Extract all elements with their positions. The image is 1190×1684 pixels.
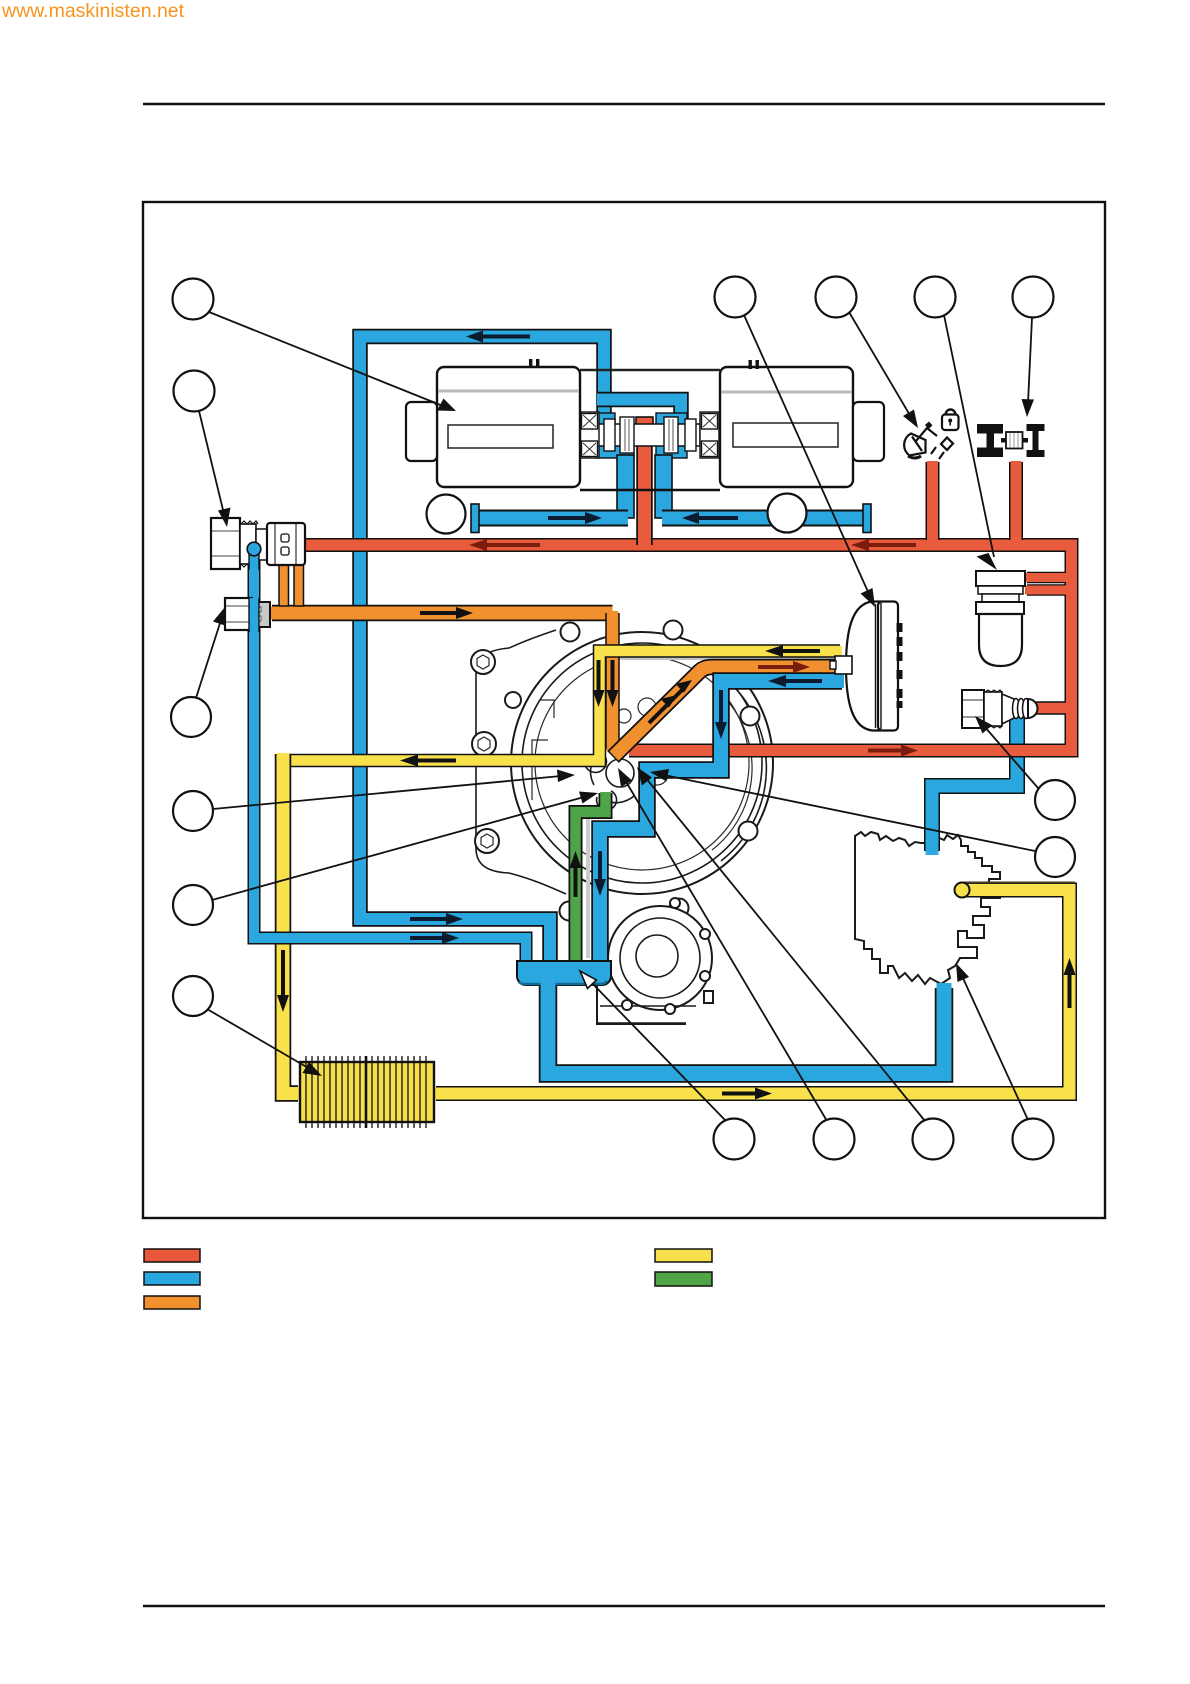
flow arrow: right suction stub (left) — [682, 512, 738, 524]
wire: blue converter return to sump — [600, 681, 842, 961]
hub gear cluster — [606, 759, 634, 787]
bell housing inner rings — [522, 643, 762, 883]
flow arrow: yellow hub lower (left) — [400, 755, 456, 767]
safety valve — [962, 690, 1038, 728]
blue pump suction stubs with end caps — [476, 510, 628, 527]
leader: c1 to pump — [209, 312, 443, 406]
housing top-left inner step — [540, 700, 554, 718]
lock-up icon (bucket + padlock) — [904, 428, 953, 459]
top rule — [143, 103, 1105, 106]
flow arrow: yellow from converter (left) — [765, 645, 820, 657]
wire: green suction pipe — [576, 793, 606, 961]
right bell (converter housing) arcs — [721, 680, 766, 861]
wire: red stub to driveshaft icon — [1009, 462, 1023, 540]
wire: blue coupling drain (small) — [254, 552, 526, 961]
leader: c8 to lock-up icon — [849, 312, 911, 417]
engine yellow port — [955, 883, 970, 898]
wire: red main pressure line top + right riser + hub return — [306, 545, 1072, 751]
flow arrows: orange diagonal (up-right) x2 — [649, 695, 677, 723]
bottom rule — [143, 1605, 1105, 1608]
leader: c9 to filter — [944, 315, 994, 557]
gear housing (lower) — [597, 985, 686, 1024]
left test coupling (converter-in tap) — [211, 518, 305, 569]
blue drain tap dot on upper coupling — [249, 550, 259, 570]
leader: c2 to coupling1 — [199, 411, 224, 514]
flow arrow: orange to converter (right) — [758, 661, 810, 673]
leader: c10 to driveshaft icon — [1028, 318, 1032, 403]
flow arrow: yellow left vertical (down) — [277, 950, 289, 1012]
flow arrow: orange hub vertical (down) — [607, 660, 619, 707]
leader: c16 to engine — [962, 976, 1028, 1120]
leader: c6 to cooler — [207, 1009, 310, 1069]
leader: c11 to safety valve — [984, 726, 1038, 788]
transmission bell housing left flange — [476, 630, 566, 894]
wire: red valve stub — [1036, 701, 1066, 715]
flow arrow: orange converter-out (right) — [420, 607, 473, 619]
bearing blocks — [580, 412, 719, 458]
torque converter — [846, 602, 880, 731]
flow arrow: green suction (up) — [570, 851, 582, 897]
wire: yellow converter line, hub drop and run to cooler — [288, 651, 840, 761]
sump tub — [517, 961, 611, 985]
flow arrow: yellow hub vertical (down) — [593, 660, 605, 707]
leader: c12 to hub far — [664, 775, 1035, 851]
lower coupling (converter-out tap) — [225, 598, 270, 630]
left pump body — [437, 367, 580, 487]
flow arrow: yellow right riser (up) — [1064, 958, 1076, 1008]
flow arrow: red hub return (right) — [868, 745, 918, 757]
driveshaft icon — [977, 424, 1045, 457]
svg-text:www.maskinisten.net: www.maskinisten.net — [1, 0, 185, 22]
wire: blue left loop (top horizontal, left vertical, lower horizontal h1) — [360, 337, 604, 962]
engine block outline — [855, 832, 1000, 984]
flow arrow: blue converter drop (down) — [715, 690, 727, 739]
right pump body — [720, 367, 853, 487]
blue drain passes over lower coupling — [249, 598, 259, 632]
pump drive shaft and couplings (over orange) — [598, 424, 700, 446]
callout circles — [171, 277, 1075, 1160]
wire: yellow cooler out, right riser, to engine port — [436, 890, 1070, 1094]
flow arrow: blue top horizontal (left) — [466, 331, 530, 343]
diagram frame — [143, 202, 1105, 1218]
flow arrow: yellow bottom (right) — [722, 1088, 772, 1100]
wire: red filter stubs — [1027, 572, 1066, 584]
flow arrows: blue returns to sump (right) x2 — [410, 913, 463, 925]
wire: orange hub-to-converter diagonal — [613, 667, 838, 757]
flow arrow: red main (left, near pump) — [469, 539, 540, 551]
leader: c7 to converter — [744, 315, 869, 594]
wire: yellow left vertical into cooler — [283, 754, 298, 1094]
leader: c3 to coupling2 — [196, 620, 221, 698]
wire: blue branch to right pump inlet — [598, 400, 681, 425]
oil filter — [976, 571, 1025, 666]
flow arrow: blue to sump right of green (down) — [594, 851, 606, 896]
flow arrow: blue to sump from converter (left) — [768, 675, 822, 687]
wire: orange coupling yoke prongs — [279, 561, 289, 606]
wire: red stub to lock-up icon — [926, 462, 940, 540]
flow arrow: red main (left, right section) — [851, 539, 916, 551]
hydrostatic pump assembly center plumbing (blue blocks) — [596, 413, 615, 429]
bell housing outer circle — [511, 632, 773, 894]
leader: c13 to sump — [590, 981, 725, 1120]
flow arrow: left suction stub (right) — [548, 512, 602, 524]
leader: c14 to hub from below — [625, 780, 827, 1121]
leader: c15 to hub from below right — [645, 777, 925, 1121]
oil cooler — [300, 1056, 434, 1128]
leader: c5 to hub — [212, 797, 584, 900]
wire: blue safety-valve drain to engine top — [932, 716, 1017, 851]
gray shadow accents — [612, 657, 836, 660]
wire: red center vertical from pump coupling — [636, 417, 653, 430]
wire: blue sump outlet to engine suction — [548, 986, 944, 1074]
rim bolt holes — [561, 623, 580, 642]
leader: c4 to hub — [213, 776, 561, 809]
wire: orange converter-out line (coupling2 to hub) — [272, 605, 613, 622]
left flange ear bolts (hex) — [471, 650, 495, 674]
